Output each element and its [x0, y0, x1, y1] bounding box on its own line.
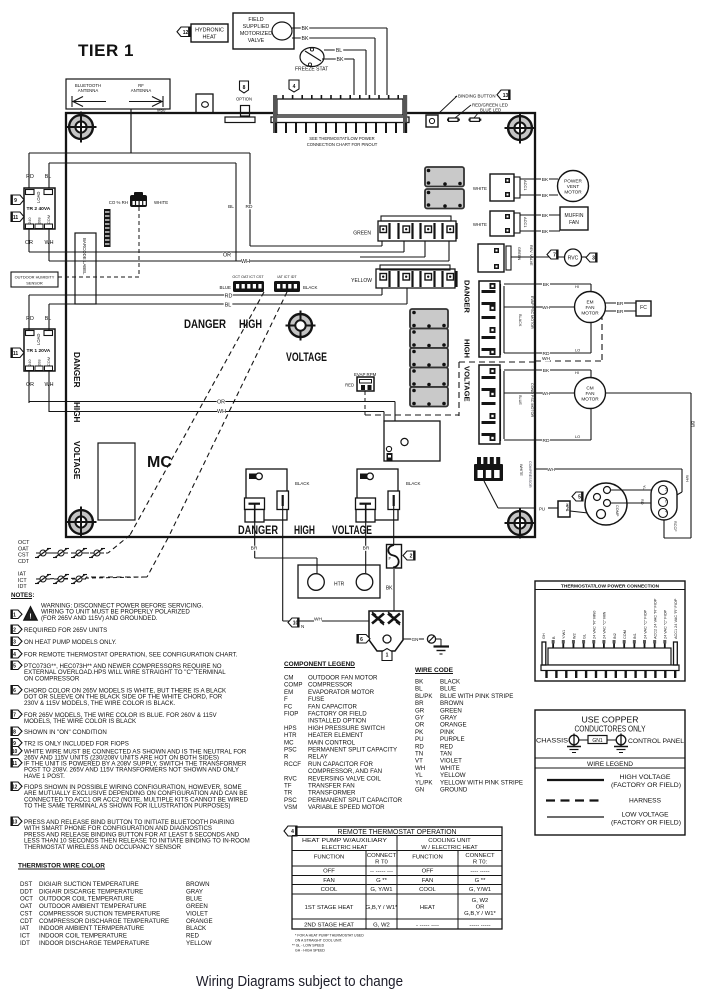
svg-text:H: H [664, 488, 668, 491]
svg-text:BL: BL [228, 204, 234, 210]
svg-text:BLACK: BLACK [303, 285, 317, 290]
svg-text:M50: M50 [157, 108, 166, 113]
svg-text:OPTION: OPTION [236, 97, 252, 102]
svg-text:4: 4 [291, 829, 294, 835]
svg-text:CO % RH: CO % RH [109, 200, 128, 205]
svg-text:HIGH: HIGH [463, 339, 472, 358]
svg-text:BK: BK [543, 282, 550, 288]
svg-text:IDT: IDT [20, 940, 30, 947]
svg-text:FAN: FAN [585, 391, 594, 396]
svg-text:TRANSFER FAN: TRANSFER FAN [308, 783, 355, 790]
svg-text:BR: BR [617, 309, 624, 315]
svg-text:* FOR A HEAT PUMP THERMOSTAT: * FOR A HEAT PUMP THERMOSTAT USED [295, 934, 364, 938]
svg-text:RCCF: RCCF [284, 761, 301, 768]
svg-text:COMPRESSOR, AND FAN: COMPRESSOR, AND FAN [308, 768, 382, 775]
svg-text:HI: HI [575, 370, 579, 375]
svg-text:DIGIAIR SUCTION TEMPERATURE: DIGIAIR SUCTION TEMPERATURE [39, 881, 139, 888]
svg-text:6: 6 [13, 688, 16, 694]
svg-text:MOTOR: MOTOR [564, 190, 582, 195]
svg-text:CONNECT: CONNECT [367, 853, 397, 859]
svg-text:FC: FC [284, 703, 293, 710]
svg-text:GRAY: GRAY [440, 715, 457, 722]
svg-text:SEE THERMOSTAT/LOW POWER: SEE THERMOSTAT/LOW POWER [309, 136, 374, 141]
svg-text:PINK: PINK [440, 729, 455, 736]
svg-text:FUNCTION: FUNCTION [412, 855, 442, 861]
svg-text:TF: TF [284, 783, 292, 790]
svg-text:BK: BK [415, 679, 424, 686]
svg-text:GREEN: GREEN [517, 247, 521, 260]
svg-text:BL: BL [415, 686, 423, 693]
svg-text:OR: OR [26, 382, 34, 388]
svg-text:RD: RD [26, 316, 34, 322]
svg-text:YELLOW: YELLOW [186, 940, 212, 947]
svg-text:9: 9 [14, 198, 17, 204]
svg-text:ELECTRIC HEAT: ELECTRIC HEAT [321, 845, 367, 851]
svg-text:GN1: GN1 [592, 738, 603, 744]
svg-text:4: 4 [293, 84, 296, 90]
svg-text:TR 1 20VA: TR 1 20VA [27, 348, 51, 354]
svg-text:230V & 115V MODELS, THE WIRE C: 230V & 115V MODELS, THE WIRE COLOR IS BL… [24, 700, 176, 707]
svg-text:GN: GN [412, 637, 419, 642]
svg-text:SHOWN IN "ON" CONDITION: SHOWN IN "ON" CONDITION [24, 729, 107, 736]
svg-text:7: 7 [553, 253, 556, 259]
svg-text:YL: YL [642, 485, 646, 490]
svg-text:BLACK: BLACK [406, 481, 420, 486]
svg-text:11: 11 [13, 215, 19, 221]
svg-text:EM: EM [586, 300, 593, 305]
svg-text:BK: BK [386, 586, 393, 592]
svg-text:BLACK: BLACK [295, 481, 309, 486]
svg-text:HARNESS: HARNESS [629, 798, 661, 805]
svg-text:ACC1 24 VAC "R" FIOP: ACC1 24 VAC "R" FIOP [674, 598, 678, 639]
svg-text:PSC: PSC [284, 747, 297, 754]
svg-text:GH: GH [542, 633, 546, 639]
svg-text:3: 3 [13, 639, 16, 645]
svg-text:CHASSIS: CHASSIS [536, 739, 568, 745]
svg-text:THERMOSTAT WIRELESS AND OCCUPA: THERMOSTAT WIRELESS AND OCCUPANCY SENSOR [24, 844, 182, 851]
svg-text:MC: MC [147, 454, 172, 471]
svg-text:MAIN CONTROL: MAIN CONTROL [308, 739, 356, 746]
svg-text:HTR: HTR [334, 582, 345, 588]
svg-text:RELAY: RELAY [308, 754, 328, 761]
svg-text:24 VAC "R" MN0: 24 VAC "R" MN0 [593, 611, 597, 639]
svg-text:INDOOR AMBIENT TERMPERATURE: INDOOR AMBIENT TERMPERATURE [39, 925, 144, 932]
svg-text:1: 1 [13, 612, 16, 618]
svg-text:HEAT: HEAT [203, 35, 218, 41]
svg-text:THERMISTOR WIRE COLOR: THERMISTOR WIRE COLOR [18, 863, 105, 870]
svg-text:ANTENNA: ANTENNA [131, 88, 152, 93]
svg-text:208: 208 [37, 218, 42, 225]
svg-text:MOTOR: MOTOR [581, 397, 599, 402]
svg-text:F: F [284, 696, 288, 703]
svg-text:TR: TR [284, 790, 293, 797]
svg-text:6: 6 [360, 637, 363, 643]
svg-text:BROWN: BROWN [186, 881, 210, 888]
svg-text:TN: TN [415, 751, 423, 758]
svg-text:GREEN: GREEN [353, 231, 371, 237]
svg-text:NOTES:: NOTES: [11, 592, 34, 599]
svg-text:RED: RED [440, 743, 454, 750]
svg-text:BK: BK [542, 213, 549, 219]
svg-text:ACC2 24 VAC "R" FIOP: ACC2 24 VAC "R" FIOP [653, 598, 657, 639]
svg-text:VIOLET: VIOLET [440, 758, 462, 765]
svg-text:BR: BR [363, 546, 370, 552]
svg-text:BLUE: BLUE [186, 896, 202, 903]
svg-text:BLUE: BLUE [220, 285, 232, 290]
svg-text:Y/W1: Y/W1 [562, 630, 566, 639]
svg-text:9: 9 [13, 741, 16, 747]
svg-text:BL: BL [45, 174, 52, 180]
svg-text:OR: OR [223, 253, 231, 259]
svg-text:PERMANENT SPLIT CAPACITOR: PERMANENT SPLIT CAPACITOR [308, 797, 403, 804]
svg-text:(FACTORY OR FIELD): (FACTORY OR FIELD) [611, 820, 681, 827]
svg-text:HIGH VOLTAGE: HIGH VOLTAGE [620, 774, 671, 781]
svg-text:8: 8 [243, 85, 246, 91]
svg-text:WH: WH [547, 467, 556, 473]
svg-text:BK: BK [542, 177, 549, 183]
svg-text:OR: OR [415, 722, 425, 729]
svg-text:2: 2 [13, 627, 16, 633]
svg-text:COM: COM [46, 215, 51, 224]
svg-text:WIRE LEGEND: WIRE LEGEND [587, 761, 633, 768]
svg-text:CONDUCTORES ONLY: CONDUCTORES ONLY [575, 724, 646, 734]
svg-text:10: 10 [293, 621, 299, 627]
svg-text:RUN CAPACITOR FOR: RUN CAPACITOR FOR [308, 761, 373, 768]
svg-text:DANGER: DANGER [463, 280, 472, 313]
svg-text:MC: MC [284, 739, 294, 746]
svg-text:HIGH: HIGH [294, 525, 315, 537]
svg-text:LOAD: LOAD [36, 334, 41, 345]
svg-text:CM: CM [284, 675, 294, 682]
svg-text:WH: WH [415, 765, 425, 772]
svg-text:CDT: CDT [20, 918, 33, 925]
svg-text:G **: G ** [376, 878, 388, 884]
svg-text:TR2 IS ONLY INCLUDED FOR FIOPS: TR2 IS ONLY INCLUDED FOR FIOPS [24, 741, 129, 748]
svg-text:FAN: FAN [585, 305, 594, 310]
svg-text:BK: BK [302, 26, 309, 32]
svg-text:RED: RED [345, 383, 354, 388]
svg-text:GN: GN [415, 787, 424, 794]
svg-text:OCT OAT ICT CST: OCT OAT ICT CST [232, 275, 264, 279]
svg-text:!: ! [29, 614, 31, 621]
svg-text:HPS: HPS [565, 504, 569, 512]
svg-text:FAN: FAN [323, 878, 334, 884]
svg-text:CONTROL PANEL: CONTROL PANEL [628, 739, 685, 745]
svg-text:DIGIAIR DISCARGE TEMPERATURE: DIGIAIR DISCARGE TEMPERATURE [39, 888, 143, 895]
svg-text:N: N [301, 624, 304, 629]
svg-text:208: 208 [37, 360, 42, 367]
svg-text:WHITE: WHITE [473, 222, 487, 227]
svg-text:PK: PK [415, 729, 424, 736]
svg-text:FACTORY OR FIELD: FACTORY OR FIELD [308, 711, 367, 718]
svg-text:EVAP PSC MOTOR: EVAP PSC MOTOR [530, 296, 534, 329]
svg-text:COOL: COOL [321, 887, 338, 893]
svg-text:OFF: OFF [323, 869, 335, 875]
svg-text:VIOLET: VIOLET [186, 910, 208, 917]
svg-text:EVAPORATOR MOTOR: EVAPORATOR MOTOR [308, 689, 375, 696]
svg-text:MOTORIZED: MOTORIZED [240, 31, 272, 37]
svg-text:COND PSC MOTOR: COND PSC MOTOR [530, 383, 534, 417]
svg-text:TIER 1: TIER 1 [78, 41, 134, 60]
svg-text:BLUE: BLUE [440, 686, 456, 693]
svg-text:IAT: IAT [18, 572, 27, 578]
svg-text:W / ELECTRIC HEAT: W / ELECTRIC HEAT [421, 845, 478, 851]
svg-text:IDT: IDT [18, 584, 27, 590]
svg-text:ON A STRAIGHT COOL UNIT.: ON A STRAIGHT COOL UNIT. [295, 939, 343, 943]
svg-text:BR: BR [691, 421, 696, 428]
svg-text:RD: RD [543, 438, 550, 444]
svg-text:OR: OR [217, 400, 225, 406]
svg-text:(FACTORY OR FIELD): (FACTORY OR FIELD) [611, 782, 681, 789]
svg-text:8: 8 [13, 729, 16, 735]
svg-text:DANGER: DANGER [72, 352, 81, 388]
svg-text:BLUE WITH PINK STRIPE: BLUE WITH PINK STRIPE [440, 693, 513, 700]
svg-text:HI: HI [575, 284, 579, 289]
svg-text:ACC1: ACC1 [523, 217, 528, 227]
svg-text:2: 2 [410, 554, 413, 560]
svg-text:W2: W2 [572, 633, 576, 639]
svg-text:RCCF: RCCF [673, 521, 677, 532]
svg-text:ICT: ICT [20, 932, 30, 939]
svg-text:REQUIRED FOR 265V UNITS: REQUIRED FOR 265V UNITS [24, 627, 107, 634]
svg-text:FOR REMOTE THERMOSTAT OPERATIO: FOR REMOTE THERMOSTAT OPERATION, SEE CON… [24, 652, 238, 659]
svg-text:HEAT: HEAT [420, 905, 436, 911]
svg-text:G, Y/W1: G, Y/W1 [370, 887, 392, 893]
svg-text:COOLING UNIT: COOLING UNIT [428, 838, 471, 844]
svg-text:BL: BL [336, 48, 342, 54]
svg-text:YELLOW: YELLOW [351, 278, 372, 284]
svg-text:7: 7 [13, 712, 16, 718]
svg-text:BK: BK [542, 229, 549, 235]
svg-text:YELLOW WITH PINK STRIPE: YELLOW WITH PINK STRIPE [440, 779, 523, 786]
svg-text:1: 1 [386, 653, 389, 659]
svg-text:GRAY: GRAY [186, 888, 203, 895]
svg-text:-- ----- ---: -- ----- --- [370, 869, 393, 875]
svg-text:ON HEAT PUMP MODELS ONLY.: ON HEAT PUMP MODELS ONLY. [24, 639, 117, 646]
svg-text:TRANSFORMER: TRANSFORMER [308, 790, 356, 797]
svg-text:CM: CM [586, 386, 593, 391]
svg-text:COMPRESSOR DISCHARGE TEMPERATU: COMPRESSOR DISCHARGE TEMPERATURE [39, 918, 169, 925]
svg-text:PU: PU [415, 736, 424, 743]
svg-text:G **: G ** [475, 878, 487, 884]
svg-text:HIGH: HIGH [72, 402, 81, 423]
svg-text:ANTENNA: ANTENNA [78, 88, 99, 93]
svg-text:HTR: HTR [284, 732, 297, 739]
svg-text:GROUND: GROUND [440, 787, 468, 794]
svg-text:GREEN: GREEN [440, 707, 462, 714]
svg-text:BR: BR [251, 546, 258, 552]
svg-text:REMOTE THERMOSTAT OPERATION: REMOTE THERMOSTAT OPERATION [338, 827, 457, 836]
svg-text:2ND STAGE HEAT: 2ND STAGE HEAT [304, 923, 354, 929]
svg-text:12: 12 [183, 30, 189, 36]
svg-text:REV. VALVE: REV. VALVE [529, 245, 533, 266]
svg-text:COMP: COMP [284, 682, 302, 689]
svg-text:ON COMPRESSOR: ON COMPRESSOR [24, 675, 80, 682]
svg-text:VOLTAGE: VOLTAGE [72, 441, 81, 480]
svg-text:INDOOR COIL TEMPERATURE: INDOOR COIL TEMPERATURE [39, 932, 127, 939]
svg-text:IAT: IAT [20, 925, 29, 932]
svg-text:FAN: FAN [569, 220, 579, 226]
svg-text:WH: WH [542, 391, 551, 397]
svg-text:1ST STAGE HEAT: 1ST STAGE HEAT [305, 905, 354, 911]
svg-text:BK: BK [543, 368, 550, 374]
svg-text:G, W2: G, W2 [373, 923, 390, 929]
svg-text:BK: BK [302, 36, 309, 42]
svg-text:GR: GR [415, 707, 425, 714]
svg-text:RD: RD [415, 743, 424, 750]
svg-text:GY: GY [415, 715, 424, 722]
svg-text:ICT: ICT [18, 578, 27, 584]
svg-text:CST: CST [18, 553, 29, 559]
svg-text:FIOP: FIOP [284, 711, 298, 718]
svg-text:WH: WH [542, 305, 551, 311]
svg-text:WIRE CODE: WIRE CODE [415, 667, 453, 674]
svg-text:OCT: OCT [20, 896, 33, 903]
svg-text:MUFFIN: MUFFIN [565, 213, 584, 219]
svg-text:BROWN: BROWN [440, 700, 464, 707]
svg-text:CONNECT: CONNECT [465, 853, 495, 859]
svg-text:FREEZE STAT: FREEZE STAT [295, 67, 328, 73]
svg-text:BL: BL [45, 316, 52, 322]
svg-text:LO: LO [575, 348, 580, 353]
svg-text:INSTALLED OPTION: INSTALLED OPTION [308, 718, 366, 725]
svg-text:DST: DST [20, 881, 33, 888]
svg-text:HYDRONIC: HYDRONIC [195, 28, 224, 34]
svg-text:BLUE: BLUE [518, 395, 522, 405]
svg-text:WHITE: WHITE [440, 765, 460, 772]
svg-text:VOLTAGE: VOLTAGE [286, 352, 327, 364]
svg-text:240: 240 [27, 359, 32, 366]
svg-text:RED: RED [186, 932, 200, 939]
svg-text:YL/PK: YL/PK [415, 779, 433, 786]
svg-text:COM: COM [623, 630, 627, 639]
svg-text:HEATER ELEMENT: HEATER ELEMENT [308, 732, 363, 739]
svg-text:BARCODE LABEL: BARCODE LABEL [82, 238, 87, 275]
svg-text:FAN: FAN [422, 878, 433, 884]
svg-text:FAN CAPACITOR: FAN CAPACITOR [308, 703, 357, 710]
svg-text:PU: PU [539, 507, 545, 512]
svg-text:FUSE: FUSE [308, 696, 324, 703]
svg-text:POWER: POWER [564, 179, 582, 184]
svg-text:INDOOR DISCHARGE TEMPERATURE: INDOOR DISCHARGE TEMPERATURE [39, 940, 149, 947]
svg-text:IAT ICT IDT: IAT ICT IDT [277, 275, 297, 279]
svg-text:RVC: RVC [284, 775, 297, 782]
svg-text:3: 3 [592, 256, 595, 262]
svg-text:Wiring Diagrams subject to cha: Wiring Diagrams subject to change [196, 973, 403, 990]
svg-text:BLUE LED: BLUE LED [480, 108, 501, 113]
svg-text:OUTDOOR FAN MOTOR: OUTDOOR FAN MOTOR [308, 675, 378, 682]
svg-text:13: 13 [12, 819, 18, 825]
svg-text:LOAD: LOAD [36, 192, 41, 203]
svg-text:LOW VOLTAGE: LOW VOLTAGE [622, 812, 669, 819]
svg-text:BL: BL [225, 303, 232, 309]
svg-text:BL/PK: BL/PK [415, 693, 433, 700]
svg-text:FIELD: FIELD [248, 17, 263, 23]
svg-text:CONNECTION CHART FOR PINOUT: CONNECTION CHART FOR PINOUT [307, 142, 378, 147]
svg-text:240: 240 [27, 217, 32, 224]
svg-text:(FOR 265V AND 115V) AND GROUND: (FOR 265V AND 115V) AND GROUNDED. [41, 615, 158, 622]
svg-text:WHITE: WHITE [154, 200, 168, 205]
svg-text:YELLOW: YELLOW [440, 772, 466, 779]
svg-text:DANGER: DANGER [184, 319, 227, 331]
svg-text:PERMANENT SPLIT CAPACITY: PERMANENT SPLIT CAPACITY [308, 747, 397, 754]
svg-text:BLACK: BLACK [518, 314, 522, 327]
svg-text:HEAT PUMP W/AUXILIARY: HEAT PUMP W/AUXILIARY [302, 838, 387, 844]
svg-text:DDT: DDT [20, 888, 33, 895]
svg-text:TO THE SAME TERMINAL AS SHOWN: TO THE SAME TERMINAL AS SHOWN FOR ILLUST… [24, 803, 230, 810]
svg-text:RD: RD [543, 351, 550, 357]
svg-text:COMP: COMP [615, 505, 619, 517]
svg-text:COMPRESSOR: COMPRESSOR [308, 682, 353, 689]
svg-text:FC: FC [640, 305, 647, 311]
svg-text:COOL: COOL [419, 887, 436, 893]
svg-text:5: 5 [13, 663, 16, 669]
svg-text:13: 13 [503, 93, 509, 99]
svg-text:RD: RD [26, 174, 34, 180]
svg-text:G, W2: G, W2 [472, 898, 489, 904]
svg-text:GL: GL [582, 634, 586, 639]
svg-text:VALVE: VALVE [248, 38, 265, 44]
svg-text:WHITE: WHITE [473, 186, 487, 191]
svg-text:OAT: OAT [18, 546, 29, 552]
svg-text:RD: RD [225, 294, 233, 300]
svg-text:HIGH PRESSURE SWITCH: HIGH PRESSURE SWITCH [308, 725, 385, 732]
svg-text:YL: YL [415, 772, 423, 779]
svg-text:TR 2 40VA: TR 2 40VA [27, 206, 51, 212]
svg-text:THERMOSTAT/LOW POWER CONNECTIO: THERMOSTAT/LOW POWER CONNECTION [561, 584, 660, 590]
svg-text:G,B,Y / W1*: G,B,Y / W1* [464, 911, 496, 917]
svg-text:C: C [664, 500, 668, 503]
svg-text:4: 4 [13, 652, 16, 658]
svg-text:F: F [389, 556, 392, 561]
svg-text:COMPRESSOR: COMPRESSOR [528, 461, 532, 488]
svg-text:WH: WH [685, 475, 690, 482]
svg-text:11: 11 [13, 351, 19, 357]
svg-text:WH: WH [314, 617, 323, 623]
svg-text:PSC: PSC [284, 797, 297, 804]
svg-text:R T0:: R T0: [473, 860, 488, 866]
svg-text:BR: BR [617, 301, 624, 307]
svg-text:COMPRESSOR SUCTION TEMPERATURE: COMPRESSOR SUCTION TEMPERATURE [39, 910, 160, 917]
svg-text:BK: BK [337, 57, 344, 63]
svg-text:VARIABLE SPEED MOTOR: VARIABLE SPEED MOTOR [308, 804, 385, 811]
svg-text:RD: RD [246, 204, 253, 210]
svg-text:** GL - LOW SPEED: ** GL - LOW SPEED [292, 944, 325, 948]
svg-text:TAN: TAN [440, 751, 452, 758]
svg-text:OR: OR [476, 905, 485, 911]
svg-text:VT: VT [415, 758, 423, 765]
svg-text:SENSOR: SENSOR [26, 281, 43, 286]
svg-text:----- -----: ----- ----- [469, 923, 490, 929]
svg-text:HIGH: HIGH [239, 319, 262, 331]
svg-text:ORANGE: ORANGE [186, 918, 213, 925]
svg-text:REVERSING VALVE COIL: REVERSING VALVE COIL [308, 775, 381, 782]
svg-text:5: 5 [578, 495, 581, 501]
svg-text:24 VAC "C" MIN: 24 VAC "C" MIN [603, 611, 607, 639]
svg-text:MODELS, THE WIRE COLOR IS BLAC: MODELS, THE WIRE COLOR IS BLACK [24, 718, 137, 725]
svg-text:G, Y/W1: G, Y/W1 [469, 887, 491, 893]
svg-text:BK: BK [542, 193, 549, 199]
svg-text:HPS: HPS [284, 725, 297, 732]
svg-text:G,B,Y / W1*: G,B,Y / W1* [366, 905, 398, 911]
svg-text:WH: WH [217, 409, 226, 415]
svg-text:DANGER: DANGER [238, 525, 279, 537]
svg-text:WHITE: WHITE [519, 464, 523, 476]
svg-text:R: R [284, 754, 289, 761]
svg-text:SUPPLIED: SUPPLIED [243, 24, 270, 30]
svg-text:VOLTAGE: VOLTAGE [463, 366, 472, 402]
svg-text:HAVE 1 POST.: HAVE 1 POST. [24, 773, 65, 780]
